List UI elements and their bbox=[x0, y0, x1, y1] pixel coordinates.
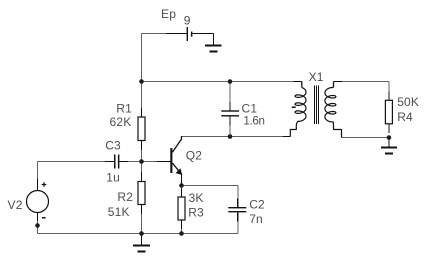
transformer core bbox=[315, 86, 319, 125]
ground (secondary/R4) bbox=[381, 138, 397, 154]
wire R2 bottom lead bbox=[141, 205, 143, 234]
svg-text:1u: 1u bbox=[106, 170, 120, 184]
capacitor C2 bbox=[228, 199, 246, 222]
wire base net mid bbox=[120, 161, 158, 163]
node base (R1/R2/C3/Q2 base) bbox=[139, 159, 144, 164]
voltage source V2 bbox=[27, 179, 49, 222]
svg-text:R2: R2 bbox=[117, 190, 133, 204]
svg-text:R1: R1 bbox=[116, 101, 132, 115]
svg-text:51K: 51K bbox=[108, 205, 130, 219]
wire emitter to R3 bbox=[181, 186, 183, 198]
svg-text:1.6n: 1.6n bbox=[243, 114, 264, 127]
node V2 negative bbox=[35, 223, 40, 228]
svg-text:9: 9 bbox=[184, 14, 191, 28]
wire R3 bottom lead bbox=[181, 220, 183, 234]
wire emitter node horizontal bbox=[182, 185, 238, 187]
node emitter (R3/C2) bbox=[179, 183, 184, 188]
svg-text:C2: C2 bbox=[249, 198, 265, 212]
svg-text:Ep: Ep bbox=[161, 7, 176, 21]
wire R1 top lead bbox=[141, 82, 143, 109]
wire C1 top lead bbox=[229, 82, 231, 103]
wire secondary top rail bbox=[342, 81, 389, 83]
wire battery branch vertical bbox=[141, 34, 143, 82]
wire battery branch horizontal bbox=[142, 33, 167, 35]
capacitor C1 bbox=[221, 102, 239, 126]
wire C2 top lead bbox=[237, 186, 239, 199]
wire top rail (V+ net) bbox=[142, 81, 294, 83]
V2 plus sign bbox=[42, 182, 47, 187]
svg-text:C1: C1 bbox=[242, 101, 258, 115]
wire C2 bottom lead bbox=[237, 212, 239, 233]
battery Ep bbox=[166, 27, 214, 41]
wire R4 branch vertical bbox=[388, 82, 390, 101]
svg-text:R3: R3 bbox=[188, 205, 204, 219]
transistor Q2 bbox=[157, 136, 182, 186]
V2 minus sign bbox=[42, 217, 46, 219]
svg-text:V2: V2 bbox=[8, 198, 23, 212]
wire C1 bottom lead bbox=[229, 117, 231, 137]
resistor R3 bbox=[178, 189, 185, 230]
wire V2 bottom bbox=[37, 213, 39, 234]
svg-text:X1: X1 bbox=[309, 70, 324, 84]
wire base net left bbox=[38, 161, 106, 163]
ground (battery negative) bbox=[205, 34, 222, 52]
resistor R2 bbox=[138, 172, 145, 214]
node V+ / battery branch bbox=[139, 79, 144, 84]
wire R2 top lead bbox=[141, 162, 143, 182]
svg-text:50K: 50K bbox=[397, 95, 419, 109]
transformer X1 secondary winding bbox=[325, 82, 342, 138]
primary polarity dash bbox=[292, 107, 296, 109]
node V+ / C1 top bbox=[228, 79, 233, 84]
svg-text:62K: 62K bbox=[110, 115, 132, 129]
svg-text:R4: R4 bbox=[397, 110, 413, 124]
node collector / C1 bottom bbox=[228, 134, 233, 139]
capacitor C3 bbox=[105, 155, 128, 169]
ground (bottom rail) bbox=[133, 234, 150, 252]
node R4 / secondary / ground bbox=[387, 135, 392, 140]
wire R1 bottom lead bbox=[141, 141, 143, 162]
resistor R4 bbox=[385, 92, 392, 134]
wire bottom rail bbox=[38, 233, 238, 235]
wire V2 top lead bbox=[37, 162, 39, 179]
svg-text:7n: 7n bbox=[249, 212, 263, 226]
wire collector rail bbox=[182, 136, 284, 138]
node ground rail / R2 bbox=[139, 231, 144, 236]
wire secondary bottom rail bbox=[342, 137, 389, 139]
svg-text:3K: 3K bbox=[189, 191, 204, 205]
svg-text:Q2: Q2 bbox=[186, 149, 203, 163]
transformer X1 primary winding bbox=[283, 82, 306, 137]
resistor R1 bbox=[138, 108, 145, 150]
svg-text:C3: C3 bbox=[105, 138, 121, 152]
node ground rail / R3 bbox=[179, 231, 184, 236]
